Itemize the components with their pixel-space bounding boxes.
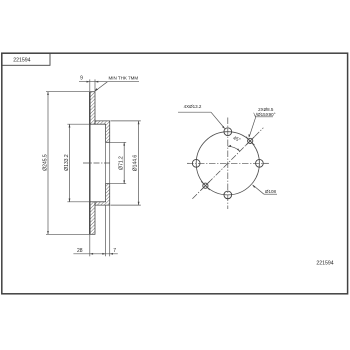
bolt hole left [192,159,200,167]
dim 133.2 extension top [67,123,89,125]
countersunk hole top-right [248,138,253,143]
crosshair right hole [263,162,269,164]
dim line D245.5 [47,92,49,235]
45 degree arc [228,146,240,151]
hat section top (hatched) [95,121,110,142]
dim 144.6 extension top [111,120,141,122]
svg-text:28: 28 [77,248,83,254]
svg-text:⋁Ø15X90°: ⋁Ø15X90° [252,112,275,117]
dim line D71.2 [123,142,125,183]
svg-text:221594: 221594 [13,58,30,64]
bolt hole bottom [224,191,232,199]
dim 71.2 extension top [107,141,126,143]
svg-text:4XØ13.2: 4XØ13.2 [184,104,202,109]
dim line 9 / MIN THK underline [79,81,139,83]
title box [2,53,50,65]
bore lines through centre hole [105,142,107,183]
bolt hole right [256,159,264,167]
dim 144.6 extension bottom [111,204,141,206]
bolt circle D108 [196,132,259,195]
diagonal 45 centerline [192,128,263,199]
svg-text:7: 7 [113,248,116,254]
svg-text:9: 9 [80,76,83,82]
dim 133.2 extension bottom [67,201,89,203]
dim line D133.2 [69,124,71,202]
outboard disc face line [89,92,91,235]
svg-text:221594: 221594 [316,261,333,267]
svg-text:Ø133.2: Ø133.2 [64,154,70,171]
horizontal centerline [187,162,269,164]
section centerline [83,162,111,164]
bolt hole top [224,128,232,136]
svg-text:Ø108: Ø108 [265,189,277,194]
svg-text:Ø71.2: Ø71.2 [119,156,125,170]
dim 245.5 extension bottom [46,233,90,235]
dim 9 extension lines [89,79,91,91]
svg-text:Ø144.6: Ø144.6 [132,155,138,172]
dim 71.2 extension bottom [107,183,126,185]
vertical centerline [227,118,229,210]
border frame [2,53,348,294]
countersunk hole bottom-left [203,183,208,188]
leader MIN THK 7MM [95,82,107,91]
dim 28/7 extension lines [89,234,91,256]
friction band top (hatched) [90,92,95,125]
dim line 28 and 7 [73,253,117,255]
dim 245.5 extension top [46,91,90,93]
svg-text:Ø245.5: Ø245.5 [42,154,48,171]
dim line D144.6 [138,121,140,205]
friction band bottom (hatched) [90,202,95,235]
svg-text:MIN THK 7MM: MIN THK 7MM [108,76,138,81]
crosshair left hole [187,162,190,164]
hat section bottom (hatched) [95,184,110,205]
